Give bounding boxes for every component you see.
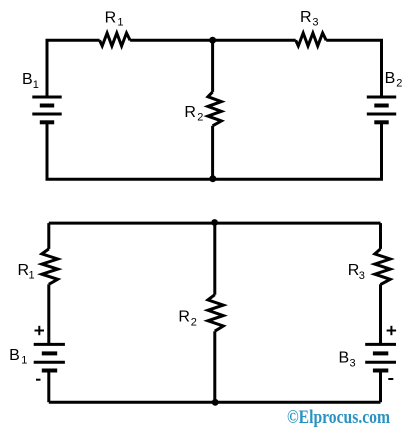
svg-text:3: 3 — [312, 17, 318, 29]
svg-text:2: 2 — [197, 112, 203, 124]
svg-text:B: B — [9, 347, 20, 364]
svg-text:B: B — [22, 71, 33, 88]
svg-text:B: B — [385, 70, 396, 87]
svg-text:3: 3 — [350, 358, 356, 370]
svg-text:©Elprocus.com: ©Elprocus.com — [287, 407, 390, 428]
svg-text:1: 1 — [21, 355, 27, 367]
svg-text:R: R — [348, 262, 360, 279]
svg-text:1: 1 — [33, 79, 39, 91]
svg-text:1: 1 — [29, 269, 35, 281]
svg-text:R: R — [178, 309, 190, 326]
svg-text:B: B — [339, 349, 350, 366]
svg-text:3: 3 — [359, 270, 365, 282]
svg-text:R: R — [18, 262, 30, 279]
svg-text:R: R — [105, 10, 117, 27]
svg-text:R: R — [300, 9, 312, 26]
svg-text:2: 2 — [191, 317, 197, 329]
svg-text:R: R — [184, 104, 196, 121]
svg-text:2: 2 — [396, 78, 402, 90]
svg-text:1: 1 — [117, 16, 123, 28]
